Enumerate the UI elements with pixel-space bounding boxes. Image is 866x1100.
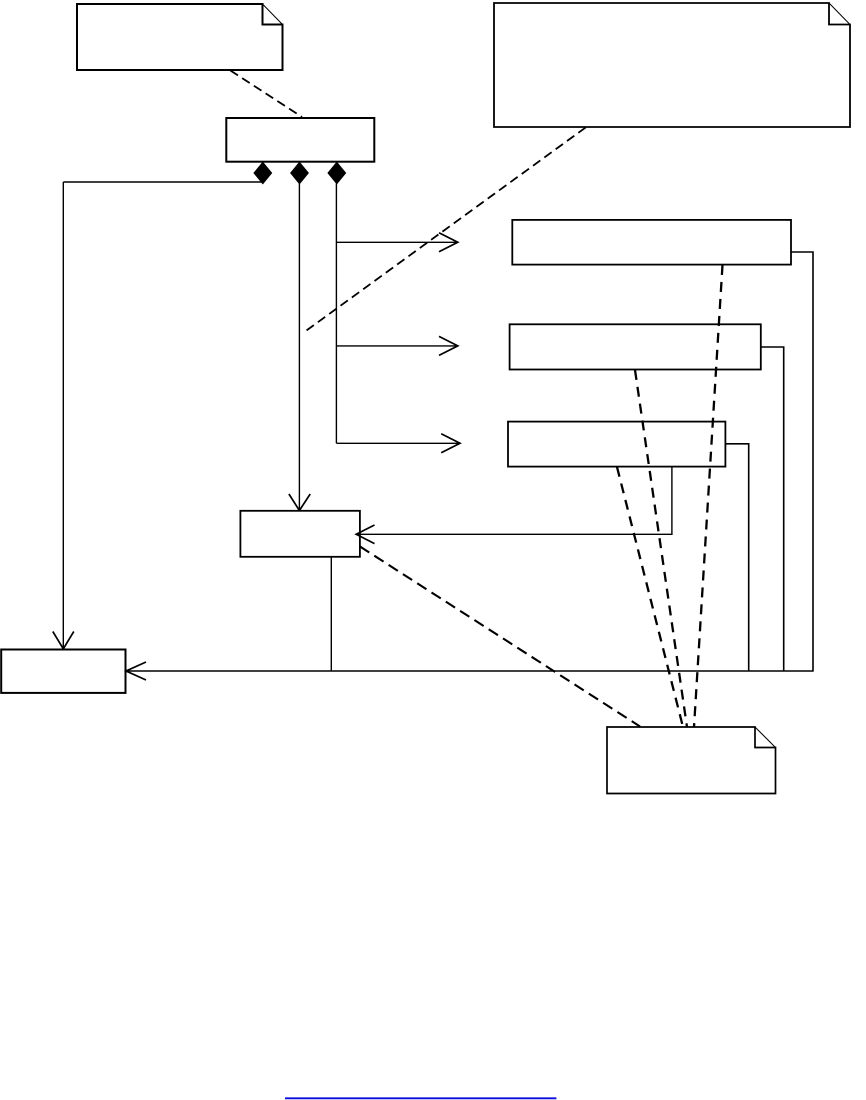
aggregation diamond middle	[291, 162, 309, 183]
dashed anchor box B3 to note N3	[617, 467, 683, 727]
class box B4 (center small)	[240, 511, 360, 557]
class box B1 (right, first)	[512, 220, 791, 265]
wire: right vertical from right diamond	[335, 184, 337, 444]
dashed anchor note N1 to box B0	[230, 71, 302, 118]
note N3 (bottom UML note, empty)	[607, 727, 776, 794]
arrowhead into top of box B4	[289, 494, 310, 511]
wire: stem from box B4 bottom to bus	[330, 557, 332, 671]
wire: connector from box B1 right edge down to bus	[791, 252, 813, 671]
note N1 (top-left UML note, empty)	[77, 4, 283, 70]
dashed anchor box B4 to note N3	[360, 547, 640, 727]
wire: middle vertical from middle diamond down to box B4	[298, 184, 300, 511]
wire: elbow from box B3 bottom to box B4 right edge	[357, 467, 672, 535]
arrowhead into top of box B5	[53, 632, 74, 649]
wire: long horizontal bus with open arrow into box B5	[126, 662, 814, 680]
wire: branch 1 with open arrow	[336, 233, 457, 252]
class box B5 (bottom-left)	[1, 650, 125, 693]
note N2 (top-right UML note, empty)	[494, 3, 850, 127]
dashed anchor note N2 to vertical association	[303, 128, 586, 334]
wire: branch 3 with open arrow	[336, 434, 460, 453]
wire: branch 2 with open arrow	[336, 336, 457, 355]
blue underline at page bottom	[285, 1097, 556, 1099]
wire: connector from box B3 right edge down to bus	[725, 444, 748, 671]
aggregation diamond left	[254, 162, 272, 183]
dashed anchor box B2 to note N3	[635, 370, 687, 727]
class box B2 (right, second)	[510, 324, 761, 369]
arrowhead into right edge of box B4	[356, 525, 374, 544]
class box B3 (right, third)	[508, 422, 725, 467]
class box B0 (top center)	[226, 118, 374, 162]
aggregation diamond right	[328, 162, 346, 183]
wire: left elbow vertical down to box B5	[62, 182, 64, 649]
wire: left elbow from left diamond, horizontal run	[63, 181, 262, 183]
dashed anchor box B1 to note N3	[694, 265, 723, 727]
wire: connector from box B2 right edge down to bus	[761, 347, 784, 671]
